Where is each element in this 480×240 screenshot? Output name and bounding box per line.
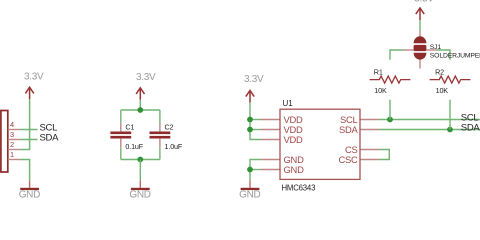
wire top rail bbox=[121, 109, 160, 111]
wire R2 to SDA bbox=[449, 100, 451, 130]
svg-text:GND: GND bbox=[239, 189, 260, 200]
pin 2 stub bbox=[8, 149, 20, 151]
IC U1 pin stubs right bbox=[360, 120, 380, 160]
pin 1 stub bbox=[8, 159, 20, 161]
svg-text:3.3V: 3.3V bbox=[136, 72, 156, 83]
svg-text:VDD: VDD bbox=[284, 134, 304, 145]
supply 3.3V arrow SJ1 bbox=[416, 8, 424, 20]
pin 3 stub bbox=[8, 139, 20, 141]
junction SCL / R1 bbox=[387, 117, 393, 123]
wire rail to ground bbox=[139, 160, 141, 181]
wire SJ1 to R2 bbox=[437, 50, 450, 60]
wire pin 2 to 3.3V bbox=[20, 99, 30, 150]
svg-text:R2: R2 bbox=[435, 67, 444, 76]
resistor R1 bbox=[370, 76, 411, 83]
junction VDD1 bbox=[247, 117, 253, 123]
junction SDA / R2 bbox=[447, 127, 453, 133]
junction VDD2 bbox=[247, 127, 253, 133]
junction top rail bbox=[137, 107, 143, 113]
connector JP1 body bbox=[1, 111, 8, 173]
svg-text:2: 2 bbox=[10, 140, 14, 149]
solder jumper SJ1 bbox=[419, 31, 421, 37]
SJ1 left pin stub bbox=[403, 49, 414, 51]
wire 3.3V to VDD pins bbox=[250, 103, 261, 140]
capacitor C1 bbox=[110, 132, 131, 135]
wire R1 to SCL bbox=[389, 100, 391, 120]
svg-text:GND: GND bbox=[284, 164, 305, 175]
ground left bbox=[29, 181, 31, 188]
wire SJ1 to R1 bbox=[390, 50, 403, 60]
svg-text:3: 3 bbox=[10, 130, 14, 139]
svg-text:3.3V: 3.3V bbox=[24, 72, 44, 83]
svg-text:10K: 10K bbox=[374, 86, 387, 95]
svg-text:SDA: SDA bbox=[339, 124, 359, 135]
wire arrow to SJ1 bbox=[419, 20, 421, 31]
svg-text:10K: 10K bbox=[436, 86, 449, 95]
wire bottom rail bbox=[121, 159, 160, 161]
SJ1 right pin stub bbox=[426, 49, 437, 51]
svg-text:GND: GND bbox=[19, 189, 40, 200]
wire arrow to top rail bbox=[139, 100, 141, 111]
svg-text:C2: C2 bbox=[165, 122, 174, 131]
svg-text:1: 1 bbox=[10, 150, 14, 159]
svg-text:1.0uF: 1.0uF bbox=[165, 142, 183, 151]
svg-text:SJ1: SJ1 bbox=[430, 44, 442, 51]
wire CS to CSC bbox=[380, 150, 390, 160]
wire C1 top bbox=[120, 110, 122, 123]
svg-text:R1: R1 bbox=[374, 67, 383, 76]
wire SDA net bbox=[380, 129, 480, 131]
ground U1 bbox=[249, 181, 251, 188]
wire GND pins bbox=[250, 160, 261, 181]
svg-text:SDA: SDA bbox=[40, 133, 60, 144]
ground caps bbox=[139, 181, 141, 188]
op-amp U1 box bbox=[280, 109, 360, 179]
svg-text:3.3V: 3.3V bbox=[244, 74, 264, 85]
resistor R2 bbox=[430, 76, 471, 83]
svg-text:C1: C1 bbox=[125, 122, 134, 131]
capacitor C2 bbox=[150, 132, 171, 135]
svg-text:HMC6343: HMC6343 bbox=[282, 183, 316, 192]
wire SCL net bbox=[380, 119, 480, 121]
supply 3.3V arrow U1 bbox=[246, 90, 254, 102]
svg-text:CSC: CSC bbox=[338, 154, 358, 165]
supply 3.3V arrow caps bbox=[136, 88, 144, 100]
svg-text:4: 4 bbox=[10, 120, 14, 129]
wire C2 top bbox=[159, 110, 161, 123]
supply 3.3V arrow left bbox=[25, 87, 33, 99]
pin 4 stub bbox=[8, 129, 20, 131]
svg-text:0.1uF: 0.1uF bbox=[125, 142, 143, 151]
IC U1 pin stubs left bbox=[261, 120, 281, 170]
wire SDA from pin 3 bbox=[20, 139, 38, 141]
wire C2 bottom bbox=[159, 139, 161, 148]
wire C1 bottom bbox=[120, 139, 122, 148]
junction bottom rail bbox=[137, 157, 143, 163]
wire SCL from pin 4 bbox=[20, 129, 38, 131]
wire VDD2 bbox=[250, 129, 261, 131]
svg-text:SDA: SDA bbox=[461, 123, 480, 134]
wire VDD1 bbox=[250, 119, 261, 121]
junction GND bbox=[247, 167, 253, 173]
svg-text:3.3V: 3.3V bbox=[414, 0, 434, 5]
svg-text:SOLDERJUMPER: SOLDERJUMPER bbox=[430, 52, 480, 59]
svg-text:GND: GND bbox=[129, 189, 150, 200]
svg-text:U1: U1 bbox=[283, 99, 294, 108]
wire pin 1 to GND bbox=[20, 160, 30, 181]
